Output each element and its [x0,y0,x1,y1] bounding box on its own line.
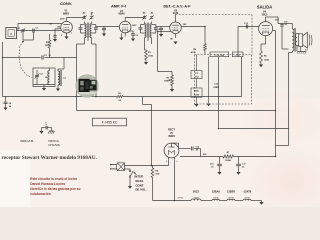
filament 12BE6 [227,190,236,201]
B+ rail [180,156,276,158]
svg-text:Este circuito lo envió el lect: Este circuito lo envió el lector [30,177,77,181]
AVC dashed line [176,14,253,16]
ground C8 [3,108,7,111]
trimmer A4 [142,11,146,19]
potentiometer R5 500K [164,72,173,90]
label 200V [60,19,65,21]
svg-text:DET.-C.A.V.-A-F: DET.-C.A.V.-A-F [163,5,191,9]
svg-text:35W4: 35W4 [168,135,175,138]
wire caps down [23,32,34,40]
label 26V [183,24,187,26]
label L5 T2 [147,40,150,42]
V1 grid stubs [49,23,72,42]
svg-text:3 Y 4: 3 Y 4 [193,197,199,200]
svg-text:150Ω: 150Ω [264,59,269,61]
capacitor C1 [33,28,39,33]
svg-text:22K: 22K [45,45,49,47]
ground L3 [56,89,60,92]
wire V5 pins [166,158,179,201]
filament 50C5 [191,190,201,201]
T1 core [88,23,89,39]
svg-text:3 Y 4: 3 Y 4 [228,197,234,200]
svg-text:1000Ω: 1000Ω [225,160,231,162]
capacitor C7 [156,27,163,35]
legend left drop [41,128,43,131]
red credit text [30,177,80,196]
oscillator coil L2 [45,68,50,85]
T2 core [148,23,149,39]
svg-text:200V: 200V [60,19,65,21]
capacitor C5 [102,27,106,34]
label 35W4 pins [177,197,183,200]
couplate internal wires [209,52,239,104]
ground oscillator [42,88,46,91]
label speaker imp [305,50,308,52]
bus B- horizontal [3,57,242,97]
wire B+ upper horizontal [220,128,289,130]
svg-text:CHASIS: CHASIS [48,143,60,147]
svg-text:470K: 470K [191,51,197,54]
label INDICA B- [20,139,34,143]
wire bracket to plug drop [143,97,152,105]
svg-text:C8: C8 [9,103,11,105]
label AMP. F-I [111,4,126,9]
label CONV. [60,1,72,6]
svg-text:NorelCo le da las gracias por: NorelCo le da las gracias por su [30,187,80,191]
svg-text:110V: 110V [275,20,280,22]
ground couplate [206,104,210,107]
resistor R6 150ohm [260,44,270,65]
svg-text:1M: 1M [57,26,60,28]
svg-text:13: 13 [49,55,51,57]
trimmer A2 [82,11,86,19]
wire T1 bottom left [77,38,85,111]
legend B- ground [39,131,43,134]
wire T2 to V3 grid [156,26,170,28]
capacitor C17 30MF [236,157,246,173]
svg-text:C-10 .005: C-10 .005 [214,55,224,57]
capacitor C14 [280,21,288,49]
wire V3 plate out [181,27,205,44]
wire speaker return lower [276,145,289,147]
resistor R4 470K [191,44,207,55]
svg-text:3 Y 4: 3 Y 4 [244,197,250,200]
capacitor C6 screen [131,34,138,39]
svg-text:6BE6: 6BE6 [63,12,70,15]
svg-text:7: 7 [71,33,72,35]
capacitor C11 box [232,52,243,57]
tube V2 IF amp [119,18,131,37]
radio photo [76,75,99,98]
capacitor C9 box [191,71,202,79]
label L4 T1 [87,40,90,42]
label 90V [203,154,207,156]
capacitor C13 [244,23,249,29]
ground C7 [159,34,163,37]
svg-text:100V: 100V [132,25,137,27]
T3 primary bottom [289,51,293,53]
filament 12BA6 [212,190,221,201]
label 110V [275,20,280,22]
V2 cathode [119,33,123,40]
wire osc box bottom [34,85,55,89]
wire C15 to rail [194,149,200,157]
svg-text:50C5: 50C5 [262,14,268,17]
ground V1 cathode [64,36,68,39]
label V4 50C5 [262,11,268,17]
tube V1 converter [61,18,73,37]
T2 right capacitor [152,25,158,34]
ground R3 [144,62,148,65]
ground R5 [170,89,174,92]
output transformer T3 primary [292,24,294,52]
dashed drop to couplate [251,15,253,55]
label V2 6BA6 [118,10,125,16]
antenna loop L1 [6,28,17,39]
label SALIDA [257,4,273,9]
T2 left capacitor [139,25,145,34]
V4 plate wire [266,17,293,24]
ground C17 [236,172,240,175]
svg-text:3.2: 3.2 [305,50,308,52]
tuning gang dashed link [19,41,32,78]
label V1 6BE6 [63,9,70,15]
V5 plate wire [172,143,191,148]
svg-text:SALIDA: SALIDA [257,4,273,9]
wire T1 bottom right [92,38,97,98]
couplate dashed box [194,55,251,105]
svg-text:12BE6: 12BE6 [227,190,235,194]
V4 cathode wire [261,40,266,44]
capacitor C16 50MF [210,157,222,173]
tube V5 rectifier [164,143,179,158]
svg-text:.05: .05 [196,149,199,151]
speaker [297,32,312,48]
wire V2 plate to T2 [125,16,144,18]
label INDICA CHASIS [48,139,60,147]
switch on volume control [129,170,133,186]
wire couplate to V4 grid [238,27,259,52]
bus wire B- left [3,42,77,97]
filament rail [153,200,259,202]
ground switch [128,186,132,189]
ground C6 [131,39,135,42]
svg-text:1M: 1M [170,39,173,41]
AC plug [110,163,125,171]
variable capacitor C2 [35,70,44,85]
V3 cathode resistor [170,37,178,45]
oscillator box [33,68,55,87]
svg-text:100Ω: 100Ω [148,56,153,58]
svg-text:R5A: R5A [194,90,199,93]
svg-text:receptor Stewart Warner mod: receptor Stewart Warner modelo 9168AU. [2,155,98,161]
capacitor C10 box [210,52,229,57]
T2 secondary coil [150,22,152,38]
svg-text:colaboración: colaboración [30,192,51,196]
svg-text:3 Y 4: 3 Y 4 [213,197,219,200]
wire plug top [125,165,169,167]
legend chassis ground [48,131,55,134]
wire antenna to V1 grid [17,24,62,31]
T3 core [294,28,295,52]
resistor R3 100ohm [145,50,154,62]
label F-I 455 KC box [93,118,127,126]
trimmer A1 [17,27,25,33]
T3 secondary [295,34,297,46]
V2 screen stub [129,31,133,34]
T1 primary coil [85,24,87,38]
svg-text:50C5: 50C5 [193,190,200,194]
svg-text:Daniel Horacio Lucero: Daniel Horacio Lucero [30,182,65,186]
resistor R1 22K [45,34,51,58]
T2 primary coil [145,22,147,38]
ground couplate left [194,97,198,107]
ground C5 [102,34,106,37]
label DET.-CAV-A-F [163,5,191,9]
svg-text:6BA6: 6BA6 [118,13,125,16]
wire plug drop [151,105,153,166]
tube V4 output [259,17,273,40]
svg-text:90V: 90V [203,154,207,156]
V4 screen wire [273,31,276,157]
svg-text:12BA6: 12BA6 [212,190,221,194]
svg-text:2: 2 [61,35,62,37]
capacitor C8 [4,97,12,109]
wire speaker return [288,53,290,146]
wire V1 plate to T1 [67,16,85,18]
wire T1 sec top [91,14,93,16]
svg-text:-12AT6: -12AT6 [243,190,252,194]
T1 right capacitor [92,25,98,34]
label 100V [132,25,137,27]
svg-text:INDICA B-: INDICA B- [20,139,34,143]
wire plug bottom [125,169,131,170]
wire T2 bottom [145,38,152,51]
label INTER EN EL CONT DE VOL [134,172,147,192]
svg-text:DE VOL.: DE VOL. [136,188,147,192]
legend right drop [51,128,53,131]
IF transformer T1 frame [85,22,92,24]
filament end arrow [259,201,264,205]
svg-text:56Ω: 56Ω [156,174,160,176]
T1 secondary coil [90,24,92,38]
svg-text:4.7M: 4.7M [194,94,199,97]
trimmer A3 [89,11,94,19]
T1 left capacitor [79,25,85,34]
resistor R2 series [117,93,124,102]
svg-text:C6: C6 [135,35,137,37]
label RECT V5 35W4 [168,129,175,138]
svg-text:F-I 455 KC: F-I 455 KC [102,121,118,125]
capacitor C15 [192,147,199,152]
wire det to volume pot [158,71,173,73]
label C12 [213,83,220,89]
svg-text:500K: 500K [164,80,169,82]
label V3 6AT6 [173,9,179,15]
svg-text:AMP. F-I: AMP. F-I [111,4,126,9]
chassis ground speaker [297,46,306,54]
resistor R8 56ohm [151,165,160,200]
trimmer A5 [149,11,154,19]
wire C9 to R5A [196,55,198,89]
wire bus2 horizontal [77,110,276,112]
tube V3 detector [170,15,182,37]
wire T1 to V2 grid [96,26,120,28]
resistor R5A box [191,88,202,97]
capacitor C3 [42,55,51,60]
legend capacitor [42,122,52,129]
vertical wire x219 [218,57,220,129]
caption receptor [2,155,98,161]
wire L3 top [58,58,64,72]
ground C16 [217,172,221,175]
filament 12AT6 [243,190,252,201]
ground R6 [259,65,263,68]
oscillator coil L3 [58,69,67,89]
resistor R7 1000ohm [223,152,234,162]
svg-text:CONV.: CONV. [60,1,72,6]
svg-text:3 Y 4: 3 Y 4 [177,197,183,200]
wire V3 diode down [158,32,171,72]
